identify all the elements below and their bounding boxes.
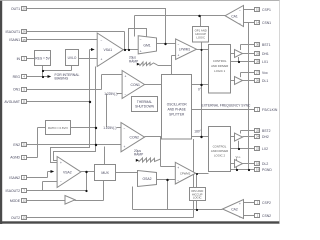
wire OUT1 net <box>27 9 166 44</box>
svg-text:MUX: MUX <box>101 171 109 175</box>
wire mid bus to VSA2 plus <box>54 67 96 161</box>
wire ramp2 branch <box>161 137 176 167</box>
PINS-RIGHT <box>255 8 278 218</box>
svg-text:CONTROL: CONTROL <box>213 145 227 149</box>
arrow internal biasing <box>48 75 52 78</box>
wire ISAOUT1 net <box>27 32 125 50</box>
wire ramp1 to LPWM1 <box>158 56 176 85</box>
pin DL2 <box>255 162 269 166</box>
svg-text:13: 13 <box>23 216 27 220</box>
svg-text:1.225V(-): 1.225V(-) <box>104 92 117 96</box>
buffer MODE <box>65 196 75 205</box>
svg-text:VDD: VDD <box>262 71 268 75</box>
driver buffer DL2 <box>235 160 243 168</box>
svg-text:CSP1: CSP1 <box>262 8 271 12</box>
svg-text:AGND: AGND <box>10 156 20 160</box>
svg-text:REG: REG <box>13 75 21 79</box>
wire UVLO to VSA1 <box>79 58 98 60</box>
wire VSA1 output <box>123 49 138 51</box>
svg-text:AND PHASE: AND PHASE <box>167 108 185 112</box>
wire ratio box output <box>71 127 96 129</box>
BLOCKS <box>35 6 252 220</box>
svg-text:+: + <box>101 57 103 61</box>
svg-text:−: − <box>177 179 179 183</box>
pin AVGLIMIT <box>4 100 26 104</box>
wire phase bus vertical <box>201 42 203 137</box>
wire CA1 output bus <box>135 16 226 37</box>
label ramp1 <box>129 56 138 64</box>
pin LX2 <box>255 147 269 151</box>
wire REG net <box>27 66 72 77</box>
svg-text:DL1: DL1 <box>262 79 268 83</box>
wire LX1 net <box>231 57 255 62</box>
svg-text:ISAIN2: ISAIN2 <box>9 176 20 180</box>
wire OSA2 output <box>157 180 176 210</box>
svg-text:−: − <box>239 215 241 219</box>
wire ON1 net <box>27 75 123 90</box>
wire IN net <box>27 58 35 60</box>
svg-text:−: − <box>124 127 126 131</box>
svg-text:CON1: CON1 <box>131 83 141 87</box>
svg-text:BST1: BST1 <box>262 43 271 47</box>
svg-text:OUT2: OUT2 <box>11 216 20 220</box>
svg-text:VSA2: VSA2 <box>63 170 72 174</box>
svg-text:EXTERNAL FREQUENCY SYNC: EXTERNAL FREQUENCY SYNC <box>202 103 252 107</box>
svg-text:GM1: GM1 <box>143 43 150 47</box>
wire VSA1 arrow feed <box>51 50 93 163</box>
node ISAOUT2 join <box>85 190 87 192</box>
wire PGND net <box>231 169 255 171</box>
ratio box <box>46 121 71 135</box>
node CPWM2 out tap <box>196 173 198 175</box>
node LPWM1 out tap <box>201 49 203 51</box>
pin ISAIN1 <box>9 38 26 43</box>
wire EN2 net <box>27 144 122 146</box>
svg-text:RAMP: RAMP <box>134 153 143 157</box>
pin BST1 <box>255 43 271 47</box>
svg-text:26: 26 <box>23 30 27 34</box>
svg-text:CA2: CA2 <box>231 208 238 212</box>
node LX2 tap <box>238 148 240 150</box>
page edge <box>0 0 2 224</box>
svg-text:21: 21 <box>23 143 27 147</box>
pin REG <box>13 75 27 79</box>
comparator CON2 <box>121 123 145 152</box>
svg-text:CSN1: CSN1 <box>262 21 271 25</box>
svg-text:ON1: ON1 <box>13 88 20 92</box>
svg-text:14: 14 <box>256 21 260 25</box>
wire VSA1 feedback to GM1 <box>129 29 147 50</box>
mux box MUX <box>95 165 116 181</box>
pin IN <box>17 57 27 61</box>
node OSA2 out <box>166 179 168 181</box>
pin MODE <box>10 199 27 203</box>
svg-text:−: − <box>60 180 62 184</box>
pin OUT1 <box>11 7 27 11</box>
svg-text:LPWM1: LPWM1 <box>179 48 191 52</box>
svg-text:LOGIC: LOGIC <box>193 196 202 200</box>
node GM1-out/OUT1 <box>164 43 166 45</box>
wire CA2 output bus <box>133 187 223 210</box>
svg-text:ISAOUT1: ISAOUT1 <box>5 30 20 34</box>
svg-text:RAMP: RAMP <box>129 59 138 63</box>
arrow into VSA2 <box>51 170 55 173</box>
svg-text:LOGIC 1: LOGIC 1 <box>214 69 225 73</box>
node AVGLIMIT join <box>89 101 91 103</box>
oscillator box <box>162 75 192 140</box>
svg-text:LX1: LX1 <box>262 60 268 64</box>
wire LPWM1 output <box>197 49 209 51</box>
label internal biasing <box>55 73 80 81</box>
arrow into VSA1 <box>91 48 95 51</box>
pin CSP1 <box>255 8 271 12</box>
wire CPWM2 output <box>196 174 209 188</box>
node REG bias1 <box>42 70 44 72</box>
pin ISAOUT1 <box>5 30 26 34</box>
svg-text:+: + <box>140 50 142 54</box>
wire AGND net <box>27 128 46 158</box>
op-amp VSA1 <box>97 33 123 67</box>
wire hiccup2 bottom <box>196 201 198 210</box>
node ratio join <box>95 127 97 129</box>
comparator CPWM2 <box>175 162 195 184</box>
pin BST2 <box>255 129 271 133</box>
arrow ramp1 <box>137 63 140 66</box>
hiccup logic 2 box <box>190 188 206 201</box>
svg-text:12: 12 <box>23 199 27 203</box>
pin DL1 <box>255 79 269 83</box>
wire 0deg line <box>192 84 209 86</box>
op-amp VSA2 <box>57 157 81 188</box>
node CA2 line hiccup tap <box>196 209 198 211</box>
svg-text:OSA2: OSA2 <box>142 177 151 181</box>
pin ISAIN2 <box>9 176 26 180</box>
node PGND tap2 <box>248 169 250 171</box>
svg-text:OSCILLATOR: OSCILLATOR <box>167 103 188 107</box>
svg-text:MODE: MODE <box>10 199 21 203</box>
svg-text:EN2: EN2 <box>13 143 20 147</box>
wire MUX output to OSA2 <box>116 172 138 174</box>
wire BST2 net <box>241 131 255 134</box>
wire GM1 output <box>157 43 176 45</box>
svg-text:CA1: CA1 <box>231 15 238 19</box>
svg-text:23: 23 <box>256 147 260 151</box>
wire DL1 out <box>231 80 255 82</box>
wire ISAOUT2 net <box>27 172 87 191</box>
svg-text:26: 26 <box>256 79 260 83</box>
node PGND tap1 <box>236 169 238 171</box>
svg-text:28: 28 <box>256 60 260 64</box>
pin CSN2 <box>255 214 272 218</box>
wire hiccup1 top <box>200 16 202 27</box>
svg-text:CSN2: CSN2 <box>262 214 271 218</box>
arrow ramp2 <box>136 159 139 162</box>
pin FSYNC <box>255 108 278 112</box>
gm amp OSA2 <box>138 171 157 187</box>
svg-text:25: 25 <box>23 38 27 42</box>
svg-text:AND DRIVER: AND DRIVER <box>211 64 228 68</box>
svg-text:+: + <box>60 161 62 165</box>
node 0deg tap <box>200 84 202 86</box>
wire DH2 out <box>231 136 255 138</box>
wire BST1 net <box>241 45 255 51</box>
comparator CON1 <box>122 71 144 99</box>
pin ISAOUT2 <box>5 189 26 193</box>
svg-text:−: − <box>140 38 142 42</box>
svg-text:1.225V(-): 1.225V(-) <box>103 126 116 130</box>
current amp CA1 <box>225 6 243 27</box>
wire AVGLIMIT net <box>27 101 90 103</box>
pin AGND <box>10 155 26 159</box>
svg-text:LOGIC 2: LOGIC 2 <box>214 154 225 158</box>
svg-text:11: 11 <box>23 100 26 104</box>
wire OUT2 net <box>27 139 194 218</box>
svg-text:CON2: CON2 <box>130 136 140 140</box>
pin ON1 <box>13 88 26 92</box>
wire DH1 out <box>231 53 255 55</box>
node CA1 line hiccup tap <box>198 15 200 17</box>
svg-text:−: − <box>125 93 127 97</box>
regulator REG box <box>35 51 51 66</box>
svg-text:DL2: DL2 <box>262 162 268 166</box>
pin EN2 <box>13 143 26 147</box>
node EN2/CON2 join <box>95 144 97 146</box>
control and driver logic 2 box <box>209 127 231 172</box>
driver buffer DL1 <box>235 77 243 85</box>
svg-text:SHUTDOWN: SHUTDOWN <box>135 104 154 108</box>
node 180deg tap <box>200 136 202 138</box>
svg-text:CPWM2: CPWM2 <box>180 172 191 176</box>
svg-text:VSA1: VSA1 <box>104 48 113 52</box>
svg-text:REG = 5V: REG = 5V <box>35 56 50 60</box>
wire LX2 net <box>231 141 255 149</box>
ramp2 sawtooth <box>139 158 161 162</box>
svg-text:ISAIN1: ISAIN1 <box>9 38 20 42</box>
control and driver logic 1 box <box>209 45 231 94</box>
svg-text:15: 15 <box>256 8 260 12</box>
thermal shutdown box <box>132 97 158 112</box>
svg-text:29: 29 <box>256 52 260 56</box>
PINS-LEFT <box>4 7 26 220</box>
svg-text:OUT1: OUT1 <box>11 7 20 11</box>
node VSA1 out fb2 <box>128 49 130 51</box>
svg-text:+: + <box>178 54 180 58</box>
gm amp GM1 <box>138 36 156 54</box>
wire CSP2 net <box>244 202 255 204</box>
pin CSN1 <box>255 21 272 25</box>
wire DL2 out <box>231 159 255 170</box>
svg-text:24: 24 <box>256 135 260 139</box>
pin DH1 <box>255 52 269 56</box>
wire CSP1 net <box>244 9 255 11</box>
svg-text:LOGIC: LOGIC <box>196 36 205 40</box>
node REG bias2 <box>42 76 44 78</box>
svg-text:PGND: PGND <box>262 168 272 172</box>
svg-text:LX2: LX2 <box>262 147 268 151</box>
svg-text:DH1: DH1 <box>262 52 269 56</box>
svg-text:−: − <box>239 9 241 13</box>
driver buffer DH1 <box>235 50 243 58</box>
pin DH2 <box>255 135 269 139</box>
pin LX1 <box>255 60 269 64</box>
svg-text:BIASING: BIASING <box>55 77 69 81</box>
svg-text:AVGLIMIT: AVGLIMIT <box>4 100 20 104</box>
svg-text:AND DRIVER: AND DRIVER <box>211 149 228 153</box>
wire VDD1 net <box>241 73 255 78</box>
svg-text:−: − <box>239 22 241 26</box>
svg-text:+: + <box>124 145 126 149</box>
UVLO box <box>66 50 79 66</box>
pin VDD <box>255 71 268 75</box>
svg-text:RATIO = 0.6V/V: RATIO = 0.6V/V <box>48 126 68 130</box>
label ramp2 <box>134 149 143 157</box>
svg-text:19: 19 <box>256 168 260 172</box>
pin CSP2 <box>255 201 271 205</box>
svg-text:FS/CLKIN: FS/CLKIN <box>262 108 278 112</box>
svg-text:+: + <box>177 166 179 170</box>
node LX1 tap <box>238 61 240 63</box>
svg-text:18: 18 <box>256 162 260 166</box>
svg-text:BST2: BST2 <box>262 129 271 133</box>
wire CON2 output 180deg line <box>145 136 209 138</box>
comparator LPWM1 <box>176 39 197 60</box>
svg-text:−: − <box>101 39 103 43</box>
svg-text:20: 20 <box>23 7 27 11</box>
svg-text:ISAOUT2: ISAOUT2 <box>5 189 20 193</box>
svg-text:SPLITTER: SPLITTER <box>169 113 185 117</box>
wire CSN2 net <box>244 215 255 217</box>
ramp1 sawtooth <box>140 62 158 66</box>
wire right sense bus <box>248 23 250 170</box>
svg-text:25: 25 <box>256 129 260 133</box>
wire MODE net <box>27 181 104 201</box>
svg-text:+: + <box>125 75 127 79</box>
wire FSYNC net <box>192 109 255 111</box>
node VSA2 out <box>85 171 87 173</box>
wire VSA2 inverting feedback <box>43 182 58 191</box>
svg-text:+: + <box>239 202 241 206</box>
driver buffer DH2 <box>235 133 243 141</box>
wire 1.225V reference bus <box>107 94 123 128</box>
pin PGND <box>255 168 273 172</box>
svg-text:IN: IN <box>17 57 21 61</box>
wire CSN1 net <box>244 22 255 24</box>
wire CON1 output <box>145 84 172 86</box>
svg-text:27: 27 <box>256 71 260 75</box>
svg-text:CONTROL: CONTROL <box>213 59 227 63</box>
svg-text:−: − <box>178 43 180 47</box>
svg-text:CSP2: CSP2 <box>262 201 271 205</box>
hiccup logic 1 box <box>193 27 209 43</box>
wire VSA2 output to MUX <box>81 171 95 173</box>
wire ISAIN1 net <box>27 39 98 41</box>
pin OUT2 <box>11 216 27 220</box>
svg-text:DH2: DH2 <box>262 135 269 139</box>
svg-text:30: 30 <box>256 43 260 47</box>
wire ISAIN2 net <box>27 172 53 178</box>
current amp CA2 <box>223 200 244 220</box>
svg-text:UVLO: UVLO <box>68 56 77 60</box>
svg-text:180°: 180° <box>194 130 201 134</box>
wire MUX select top <box>104 147 106 165</box>
node VSA1 out fb1 <box>124 49 126 51</box>
